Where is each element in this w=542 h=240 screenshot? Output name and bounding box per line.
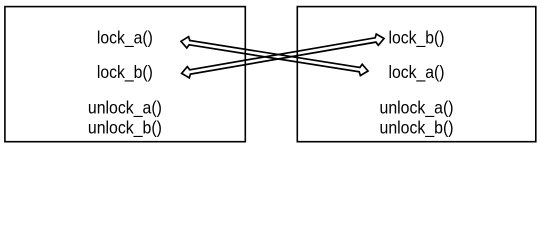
- svg-text:unlock_a(): unlock_a(): [88, 98, 162, 118]
- svg-text:lock_b(): lock_b(): [97, 62, 153, 82]
- svg-text:lock_a(): lock_a(): [389, 62, 445, 82]
- thread 1 box: [5, 7, 245, 142]
- double-headed arrow lock_a to lock_a: [181, 37, 368, 76]
- svg-text:unlock_b(): unlock_b(): [88, 117, 162, 137]
- svg-text:lock_a(): lock_a(): [97, 28, 153, 48]
- svg-text:unlock_b(): unlock_b(): [380, 117, 454, 137]
- double-headed arrow lock_b to lock_b: [182, 34, 384, 78]
- thread 2 box: [297, 7, 536, 142]
- svg-text:lock_b(): lock_b(): [389, 28, 445, 48]
- svg-text:unlock_a(): unlock_a(): [380, 98, 454, 118]
